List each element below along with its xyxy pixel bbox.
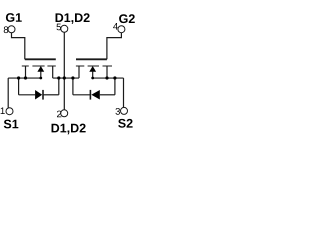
junction dot source tick Q1 bbox=[24, 76, 27, 79]
wire S2 rail bbox=[93, 77, 124, 79]
pin 8 terminal circle G1 bbox=[8, 26, 15, 33]
transistor Q1 body stub bbox=[40, 71, 42, 78]
diode D2 cathode bar bbox=[89, 90, 91, 100]
diode D2 cathode wire bbox=[73, 94, 91, 96]
pin 5 number bbox=[57, 24, 62, 31]
transistor Q2 source tick bbox=[106, 66, 108, 78]
wire S1 rail bbox=[8, 77, 42, 79]
wire D riser to bottom pin bbox=[63, 78, 65, 110]
pin 8 number bbox=[4, 26, 8, 33]
transistor Q2 channel source segment bbox=[103, 65, 113, 67]
node G1 label bbox=[6, 13, 22, 22]
pin 2 terminal circle D1,D2 bottom bbox=[61, 110, 68, 117]
junction dot diode D1 branch bbox=[17, 76, 20, 79]
transistor Q2 body arrow bbox=[89, 66, 96, 72]
pin 4 terminal circle G2 bbox=[118, 26, 125, 33]
wire D riser top pin to drain bus bbox=[63, 32, 65, 78]
diode D1 anode wire bbox=[19, 94, 35, 96]
pin 1 number bbox=[1, 107, 5, 114]
diode D2 branch riser from S2 rail bbox=[114, 78, 116, 95]
wire G2 pin to gate of Q2 bbox=[107, 33, 122, 60]
junction dot diode D1 riser bbox=[57, 76, 60, 79]
junction dot diode D2 riser bbox=[71, 76, 74, 79]
transistor Q1 channel body segment bbox=[32, 65, 44, 67]
node S1 label bbox=[4, 120, 19, 129]
diode D1 cathode wire bbox=[43, 94, 59, 96]
junction dot body stub Q1 bbox=[39, 77, 42, 80]
transistor Q1 body arrow bbox=[37, 66, 44, 72]
wire G1 pin to gate of Q1 bbox=[12, 33, 25, 60]
transistor Q2 drain tick bbox=[78, 66, 80, 78]
diode D2 triangle bbox=[91, 90, 100, 100]
node S2 label bbox=[118, 119, 132, 128]
diode D2 riser to drain bus bbox=[72, 78, 74, 95]
transistor Q1 channel source segment bbox=[22, 65, 29, 67]
node D1,D2 bottom label bbox=[52, 124, 86, 135]
node D1,D2 top label bbox=[56, 13, 90, 24]
pin 3 number bbox=[115, 108, 120, 115]
transistor Q2 body stub bbox=[92, 71, 94, 78]
transistor Q1 source tick bbox=[25, 66, 27, 78]
junction dot source tick Q2 bbox=[105, 76, 108, 79]
node G2 label bbox=[119, 14, 135, 23]
junction dot diode D2 branch bbox=[113, 76, 116, 79]
pin 1 terminal circle S1 bbox=[6, 108, 13, 115]
diode D1 triangle bbox=[35, 90, 42, 100]
diode D1 cathode bar bbox=[42, 90, 44, 100]
diode D1 branch riser from S1 rail bbox=[18, 78, 20, 95]
wire drain bus bbox=[53, 77, 79, 79]
wire S1 vertical bbox=[7, 78, 9, 108]
wire S2 vertical bbox=[123, 78, 125, 107]
transistor Q1 gate bar bbox=[25, 58, 56, 60]
transistor Q2 channel drain segment bbox=[76, 65, 84, 67]
pin 2 number bbox=[57, 111, 61, 118]
pin 4 number bbox=[113, 23, 118, 30]
transistor Q1 drain tick bbox=[52, 66, 54, 78]
diode D1 riser to drain bus bbox=[58, 78, 60, 95]
junction dot body stub Q2 bbox=[91, 77, 94, 80]
transistor Q2 channel body segment bbox=[88, 65, 99, 67]
transistor Q1 channel drain segment bbox=[47, 65, 55, 67]
junction dot D riser bbox=[63, 76, 66, 79]
pin 3 terminal circle S2 bbox=[121, 107, 128, 114]
diode D2 anode wire bbox=[100, 94, 115, 96]
pin 5 terminal circle D1,D2 top bbox=[61, 25, 68, 32]
transistor Q2 gate bar bbox=[76, 58, 107, 60]
